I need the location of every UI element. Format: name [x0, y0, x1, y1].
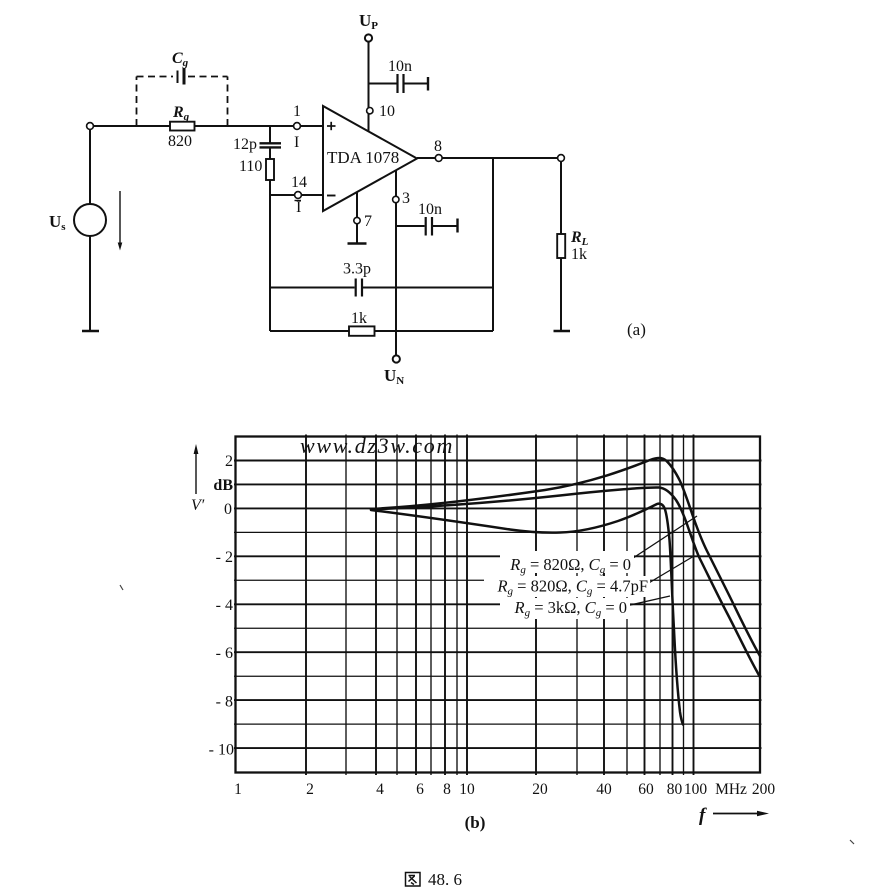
svg-text:MHz: MHz [715, 781, 747, 798]
svg-text:8: 8 [443, 781, 451, 798]
svg-text:12p: 12p [233, 136, 257, 153]
svg-text:200: 200 [752, 781, 776, 798]
svg-text:10: 10 [379, 103, 395, 120]
svg-text:(a): (a) [627, 320, 646, 339]
svg-text:40: 40 [596, 781, 612, 798]
svg-text:14: 14 [291, 174, 307, 191]
svg-text:- 8: - 8 [216, 694, 233, 711]
svg-text:f: f [699, 805, 707, 826]
svg-text:10n: 10n [388, 58, 412, 75]
svg-text:10: 10 [459, 781, 475, 798]
svg-text:110: 110 [239, 158, 262, 175]
svg-text:(b): (b) [465, 813, 486, 832]
svg-text:Rg: Rg [172, 104, 190, 123]
svg-text:2: 2 [306, 781, 314, 798]
svg-text:- 4: - 4 [216, 597, 233, 614]
svg-text:60: 60 [638, 781, 654, 798]
svg-text:3.3p: 3.3p [343, 261, 371, 278]
svg-text:Rg = 820Ω, Cg = 4.7pF: Rg = 820Ω, Cg = 4.7pF [496, 577, 648, 598]
svg-text:820: 820 [168, 133, 192, 150]
svg-text:Cg: Cg [172, 50, 189, 69]
svg-text:8: 8 [434, 138, 442, 155]
svg-text:80: 80 [667, 781, 683, 798]
svg-text:Rg = 820Ω, Cg = 0: Rg = 820Ω, Cg = 0 [509, 555, 631, 576]
svg-text:UP: UP [359, 11, 378, 32]
svg-text:I: I [294, 134, 299, 151]
svg-text:7: 7 [364, 213, 372, 230]
svg-text:10n: 10n [418, 201, 442, 218]
svg-text:1: 1 [234, 781, 242, 798]
svg-text:- 2: - 2 [216, 549, 233, 566]
svg-text:0: 0 [224, 501, 232, 518]
svg-text:48. 6: 48. 6 [428, 870, 462, 887]
svg-text:6: 6 [416, 781, 424, 798]
svg-text:dB: dB [213, 477, 233, 494]
svg-text:- 6: - 6 [216, 645, 233, 662]
svg-text:TDA 1078: TDA 1078 [327, 148, 399, 167]
svg-text:- 10: - 10 [209, 742, 234, 759]
svg-text:I: I [296, 199, 301, 216]
svg-text:1k: 1k [351, 310, 367, 327]
svg-text:4: 4 [376, 781, 384, 798]
svg-text:UN: UN [384, 366, 404, 387]
svg-text:20: 20 [532, 781, 548, 798]
svg-text:2: 2 [225, 453, 233, 470]
svg-text:Us: Us [49, 212, 66, 233]
svg-text:V′: V′ [191, 497, 205, 514]
svg-text:www.dz3w.com: www.dz3w.com [300, 433, 454, 458]
svg-text:1: 1 [293, 103, 301, 120]
svg-text:1k: 1k [571, 246, 587, 263]
svg-text:Rg = 3kΩ, Cg = 0: Rg = 3kΩ, Cg = 0 [514, 598, 628, 619]
svg-text:100: 100 [684, 781, 708, 798]
svg-text:3: 3 [402, 190, 410, 207]
